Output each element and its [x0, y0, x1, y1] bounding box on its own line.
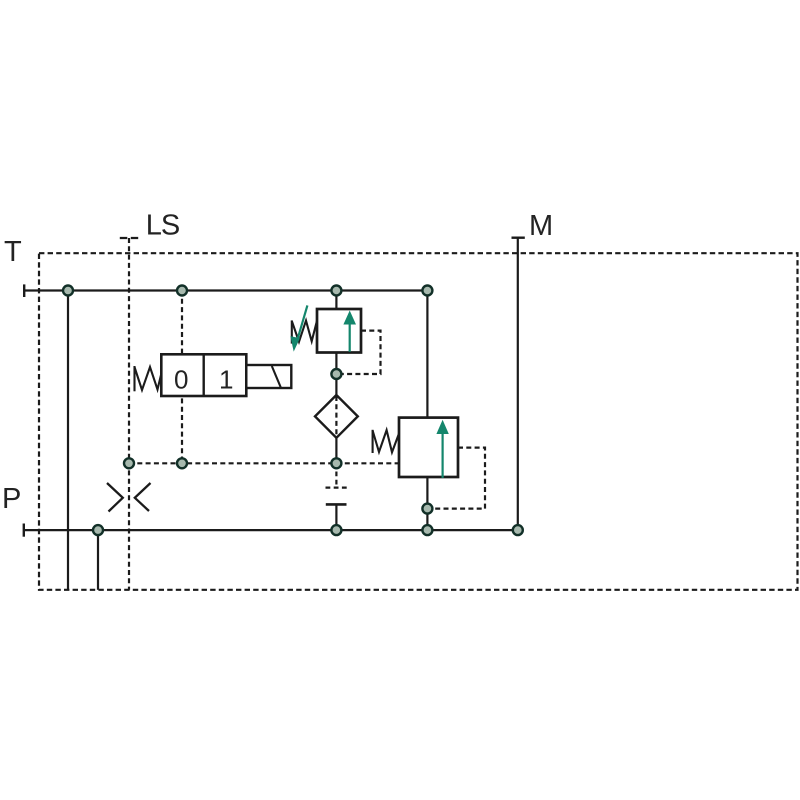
adjustability arrow (green) [290, 305, 307, 351]
wire: filter outlet [335, 438, 337, 464]
manifold enclosure (dashed boundary) [39, 253, 798, 590]
flow arrow [436, 420, 448, 478]
valve body [399, 418, 458, 477]
plugged gauge connection (dashed stub) [326, 463, 348, 487]
return spring [135, 366, 162, 391]
wire: V2 outlet down [335, 353, 337, 396]
node pilot row / filter outlet [331, 458, 341, 468]
node on P rail (plug stub) [331, 525, 341, 535]
svg-text:LS: LS [146, 210, 180, 242]
node on P rail (M junction) [513, 525, 523, 535]
port LS end tick (dashed) [120, 237, 138, 239]
node pilot row / solenoid drop [177, 458, 187, 468]
node on P rail (V3 outlet) [422, 525, 432, 535]
filter mesh (dashed centre line) [335, 396, 337, 437]
port M end tick [512, 236, 525, 238]
flow arrow [343, 311, 356, 352]
wire: M gauge line [517, 238, 519, 530]
pilot line (dashed) to outlet [434, 448, 486, 509]
wire: T rail [24, 289, 427, 291]
wire: V3 outlet down [426, 477, 428, 530]
valve body [317, 309, 361, 353]
pilot wire: solenoid valve sense drop (dashed) [181, 291, 183, 464]
solenoid actuator [246, 365, 291, 388]
pilot wire: LS vertical (dashed) [128, 238, 130, 590]
solenoid valve V1 (2/2 with spring return) [135, 354, 292, 396]
filter F1 [315, 395, 358, 463]
svg-text:1: 1 [219, 364, 233, 394]
wire: tank drain drop [67, 291, 69, 590]
valve body [161, 354, 246, 396]
cell divider [202, 354, 204, 396]
adjusting spring [292, 320, 317, 343]
test point coupling chevrons [107, 483, 151, 512]
svg-text:P: P [2, 483, 21, 515]
node on T rail (solenoid sense) [177, 286, 187, 296]
wire: P rail [24, 529, 518, 531]
node V2 outlet / pilot join [331, 369, 341, 379]
pilot wire: LS horizontal run (dashed) [129, 462, 399, 464]
wire: T rail to V2 inlet [335, 291, 337, 310]
port P end tick [23, 524, 25, 537]
node V3 pilot join [422, 504, 432, 514]
node LS line / pilot row [124, 458, 134, 468]
node on T rail (V2 branch) [331, 286, 341, 296]
wire: P drop [97, 530, 99, 590]
node on T rail (tank drop) [63, 286, 73, 296]
wire: T rail drop to V3 [426, 291, 428, 418]
pressure valve V3 (pilot stage) [373, 291, 485, 531]
port T end tick [23, 284, 25, 297]
node on T rail (V3 branch) [422, 286, 432, 296]
spring [373, 430, 399, 453]
solenoid slash [272, 366, 281, 388]
svg-text:0: 0 [174, 364, 188, 394]
filter diamond [315, 395, 358, 438]
node on P rail (P drop) [93, 525, 103, 535]
relief valve V2 (pilot relief, adjustable) [290, 291, 380, 396]
pilot line (dashed) to downstream [343, 331, 381, 374]
svg-text:M: M [529, 210, 553, 242]
svg-text:T: T [4, 236, 22, 268]
plugged connection (solid stub) [326, 504, 347, 530]
